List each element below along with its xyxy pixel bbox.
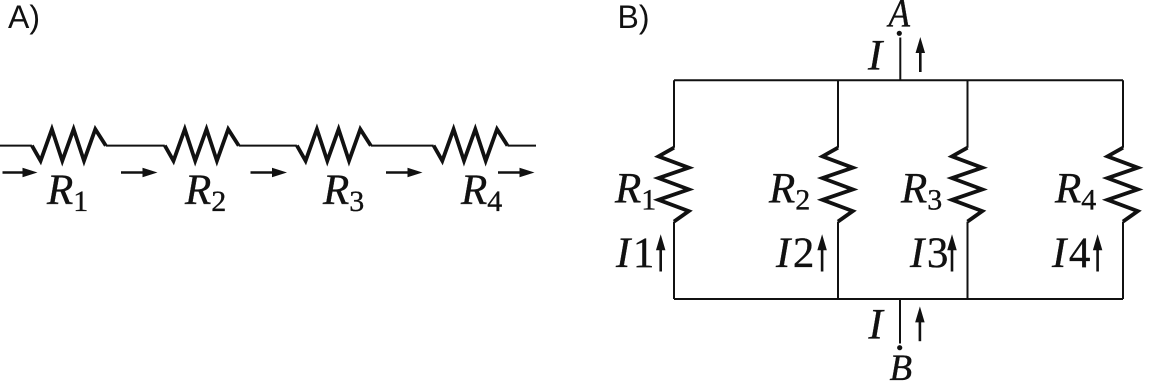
svg-text:A: A [886,0,911,36]
wire (branch 3 verticals) [967,80,969,299]
resistor R2 [165,129,239,218]
svg-text:R3: R3 [322,167,364,218]
resistor R1 (branch 1) [614,148,689,222]
current arrow I (bottom) [915,306,925,341]
resistor R1 [32,129,106,218]
label I3 with arrow [909,230,957,277]
resistor R2 (branch 2) [768,148,853,222]
svg-text:R1: R1 [614,166,656,217]
wire (branch 4 verticals) [1122,80,1124,299]
wire (branch 2 verticals) [837,80,839,299]
wire [371,145,434,147]
wire (top rail) [674,79,1123,81]
svg-text:R2: R2 [768,166,810,217]
svg-text:I3: I3 [909,230,948,277]
label I1 with arrow [615,230,665,277]
node B [897,345,902,350]
current arrow (between R2 and R3) [251,168,288,178]
wire (bottom rail to node B) [899,299,901,344]
svg-text:R4: R4 [1054,166,1096,217]
resistor R3 [297,129,371,218]
svg-text:I2: I2 [775,230,814,277]
svg-text:R3: R3 [900,166,942,217]
wire [508,145,537,147]
label I2 with arrow [775,230,827,277]
wire [239,145,297,147]
wire (node A to top rail) [899,38,901,81]
wire (branch 1 verticals) [673,80,675,299]
label I4 with arrow [1051,230,1102,277]
svg-text:B): B) [618,0,650,35]
svg-text:I4: I4 [1051,230,1090,277]
svg-text:I1: I1 [615,230,654,277]
current arrow I (top) [916,37,926,72]
current arrow (left of R1) [3,168,38,178]
wire [0,145,32,147]
svg-text:I: I [867,33,884,80]
svg-text:B: B [890,348,913,388]
current arrow (between R1 and R2) [121,168,158,178]
svg-text:R2: R2 [184,167,226,218]
resistor R3 (branch 3) [900,148,982,222]
resistor R4 (branch 4) [1054,148,1138,222]
svg-text:A): A) [8,0,40,35]
svg-text:I: I [868,301,885,348]
svg-text:R4: R4 [460,167,502,218]
current arrow (right of R4) [498,168,535,178]
wire (bottom rail) [674,298,1123,300]
current arrow (between R3 and R4) [386,168,423,178]
wire [106,145,165,147]
svg-text:R1: R1 [46,167,88,218]
resistor R4 [434,129,508,218]
